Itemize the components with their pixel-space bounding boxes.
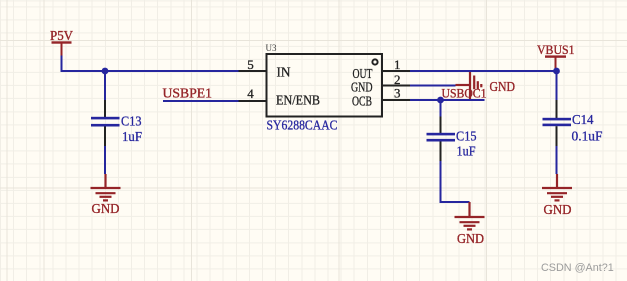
wire VBUS1 to C14: [556, 71, 558, 100]
svg-text:0.1uF: 0.1uF: [572, 129, 603, 144]
inverted output dot: [372, 59, 377, 64]
pin 3 (OCB): [382, 99, 410, 101]
svg-text:4: 4: [247, 86, 254, 101]
svg-text:GND: GND: [490, 79, 516, 94]
svg-text:1: 1: [394, 57, 401, 72]
svg-text:1uF: 1uF: [457, 144, 476, 159]
wire pin 1 to VBUS1: [410, 70, 557, 72]
svg-text:GND: GND: [92, 201, 120, 216]
svg-text:VBUS1: VBUS1: [537, 42, 575, 57]
svg-text:GND: GND: [457, 231, 484, 246]
svg-text:P5V: P5V: [50, 28, 73, 43]
ground GND (pin 2, rotated right): [456, 72, 482, 100]
pin 2 (GND): [382, 85, 410, 87]
svg-text:3: 3: [394, 86, 401, 101]
ground GND (below C15): [455, 202, 485, 229]
svg-text:C14: C14: [572, 112, 594, 127]
svg-text:1uF: 1uF: [122, 129, 142, 144]
wire junction to C13: [104, 71, 106, 100]
svg-text:OCB: OCB: [352, 95, 372, 110]
wire junction to C15: [440, 100, 442, 117]
svg-text:GND: GND: [351, 81, 373, 96]
pin 5 (IN): [239, 70, 267, 72]
ground GND (below C13): [91, 174, 121, 200]
IC body: [267, 54, 383, 117]
svg-text:IN: IN: [277, 65, 291, 80]
wire P5V to pin 5: [62, 56, 239, 72]
svg-text:GND: GND: [544, 202, 572, 217]
junction node P5V / C13: [102, 68, 109, 75]
junction node VBUS1 / C14: [553, 68, 560, 75]
ground GND (below C14): [542, 174, 572, 200]
svg-text:5: 5: [247, 57, 254, 72]
wire pin 2 to ground: [410, 85, 456, 87]
power flag VBUS1: [537, 42, 575, 70]
svg-text:USBOC1: USBOC1: [442, 86, 487, 101]
IC U3 SY6288CAAC: [266, 43, 383, 133]
wire C14 to ground: [556, 146, 558, 174]
pin 4 (EN/ENB): [239, 100, 267, 102]
power flag P5V: [50, 28, 73, 56]
pin 1 (OUT): [382, 70, 410, 72]
svg-text:CSDN @Ant?1: CSDN @Ant?1: [541, 262, 614, 274]
wire C15 to ground: [441, 161, 470, 202]
wire C13 to ground: [104, 146, 106, 174]
junction node C15: [437, 97, 444, 104]
svg-text:SY6288CAAC: SY6288CAAC: [267, 118, 338, 133]
svg-text:EN/ENB: EN/ENB: [276, 93, 320, 108]
capacitor C14: [543, 100, 603, 146]
svg-text:USBPE1: USBPE1: [163, 86, 213, 101]
svg-text:C13: C13: [121, 114, 142, 129]
svg-text:C15: C15: [456, 129, 477, 144]
wire pin 3 (USBOC1): [410, 99, 485, 101]
capacitor C15: [427, 117, 477, 162]
capacitor C13: [91, 100, 142, 146]
wire USBPE1 to pin 4: [163, 100, 239, 102]
svg-text:U3: U3: [266, 43, 277, 53]
